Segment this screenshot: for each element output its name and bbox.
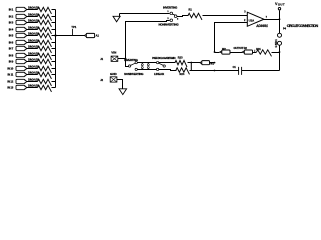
connector link P1 (jack pair) bbox=[278, 33, 282, 37]
resistor R7 bbox=[38, 46, 52, 53]
svg-text:LINEAR: LINEAR bbox=[154, 72, 164, 76]
wire feedback row segment bbox=[231, 52, 243, 54]
node mid rows merge bbox=[190, 63, 192, 70]
wire row 6 to bus bbox=[52, 42, 56, 44]
wire ground to switch S1 top contact bbox=[120, 13, 170, 15]
wire row 2 to bus bbox=[52, 16, 56, 18]
switch S2 bbox=[128, 65, 130, 67]
resistor R2 bbox=[38, 14, 52, 21]
svg-text:TP1: TP1 bbox=[71, 25, 77, 29]
wire VIN to junction bbox=[118, 58, 126, 60]
wire row 4 to bus bbox=[52, 29, 56, 31]
switch S3 bbox=[156, 61, 158, 63]
svg-text:IN 7: IN 7 bbox=[9, 47, 14, 51]
svg-text:IN 13: IN 13 bbox=[7, 86, 13, 90]
svg-text:GND: GND bbox=[110, 72, 118, 76]
svg-text:IN 3: IN 3 bbox=[9, 21, 14, 25]
node merge junction bbox=[190, 62, 192, 64]
wire row 5 to bus bbox=[52, 35, 56, 37]
svg-text:U1A: U1A bbox=[249, 18, 255, 22]
wire input row 11 bbox=[27, 74, 38, 76]
resistor R5 bbox=[38, 33, 52, 40]
wire input row 12 bbox=[27, 81, 38, 83]
node tick R31 bbox=[254, 50, 256, 52]
svg-text:IN 10: IN 10 bbox=[7, 67, 13, 71]
ground GND top bbox=[119, 14, 121, 17]
wire input row 10 bbox=[27, 68, 38, 70]
resistor R4 bbox=[38, 27, 52, 34]
svg-text:R1: R1 bbox=[189, 7, 193, 11]
wire output to VOUT terminal bbox=[279, 11, 281, 20]
resistor R1 bbox=[38, 7, 52, 14]
wire R31 to VOUT line bbox=[272, 52, 280, 54]
resistor R10 bbox=[38, 66, 52, 73]
resistor R12 bbox=[38, 79, 52, 86]
node TP1 tick bbox=[72, 29, 74, 36]
svg-text:R23: R23 bbox=[178, 55, 183, 59]
node VIN junction bbox=[125, 58, 127, 60]
terminal flag W1 bbox=[200, 61, 203, 64]
terminal flag A1 bbox=[84, 34, 87, 37]
wire riser to feedback row bbox=[215, 52, 220, 54]
node feedback-vout junction bbox=[279, 51, 281, 53]
terminal flag W2 bbox=[220, 51, 223, 54]
wire row 11 to bus bbox=[52, 74, 56, 76]
svg-text:GND1: GND1 bbox=[274, 39, 278, 48]
wire GND to ground symbol bbox=[117, 80, 123, 89]
terminal VOUT bbox=[278, 8, 280, 10]
resistor R6 bbox=[38, 40, 52, 47]
resistor R13 bbox=[38, 85, 52, 92]
wire C1 to VOUT line bbox=[242, 70, 280, 72]
resistor R1 bbox=[188, 13, 202, 20]
wire input row 8 bbox=[27, 55, 38, 57]
wire input row 9 bbox=[27, 61, 38, 63]
svg-text:NONINVERTING: NONINVERTING bbox=[159, 23, 179, 27]
wire input row 6 bbox=[27, 42, 38, 44]
wire summing bus bbox=[55, 10, 57, 88]
resistor R3 bbox=[38, 20, 52, 27]
wire row 13 to bus bbox=[52, 87, 56, 89]
node output junction bbox=[279, 18, 281, 20]
wire R24 to riser bottom bbox=[190, 70, 215, 72]
wire input row 3 bbox=[27, 22, 38, 24]
wire bus tap to flag A1 bbox=[56, 35, 85, 37]
wire row 10 to bus bbox=[52, 68, 56, 70]
wire output down to link bbox=[279, 20, 281, 34]
svg-text:PSEUDOLOGARITHMIC: PSEUDOLOGARITHMIC bbox=[152, 57, 176, 60]
wire row 7 to bus bbox=[52, 48, 56, 50]
wire inter-switch top bbox=[138, 62, 157, 64]
op-amp U1 bbox=[247, 12, 264, 26]
connector link P2 bbox=[141, 64, 143, 66]
terminal GND box bbox=[110, 77, 117, 82]
wire input row 2 bbox=[27, 16, 38, 18]
svg-text:NONINVERTING: NONINVERTING bbox=[124, 72, 143, 76]
resistor R8 bbox=[38, 53, 52, 60]
svg-text:IN 12: IN 12 bbox=[7, 80, 13, 84]
svg-text:IN 6: IN 6 bbox=[9, 41, 14, 45]
node riser-feedback junction bbox=[214, 51, 216, 53]
svg-text:VOUT: VOUT bbox=[275, 2, 285, 6]
wire input row 7 bbox=[27, 48, 38, 50]
capacitor C1 bbox=[239, 67, 242, 75]
wire flag to R31 bbox=[253, 52, 257, 54]
terminal flag OUTPUT bbox=[242, 51, 245, 54]
switch S1 bbox=[170, 12, 173, 15]
wire row 9 to bus bbox=[52, 61, 56, 63]
terminal VIN box bbox=[111, 56, 118, 61]
wire S3 top to R23 bbox=[159, 62, 176, 64]
wire row 1 to bus bbox=[52, 9, 56, 11]
svg-text:CIRCUIT CONNECTION: CIRCUIT CONNECTION bbox=[287, 24, 319, 28]
resistor R31 bbox=[257, 50, 272, 57]
svg-text:IN 2: IN 2 bbox=[9, 15, 14, 19]
svg-text:R24: R24 bbox=[180, 72, 185, 76]
resistor R11 bbox=[38, 72, 52, 79]
wire VIN riser to switch S1 bottom contact bbox=[126, 21, 170, 59]
resistor R23 bbox=[175, 60, 187, 67]
wire op-amp output bbox=[264, 19, 280, 21]
svg-text:IN 9: IN 9 bbox=[9, 60, 14, 64]
wire switch S1 common to R1 bbox=[177, 16, 189, 17]
svg-text:VIN: VIN bbox=[111, 51, 116, 55]
svg-text:AD8691: AD8691 bbox=[255, 24, 268, 28]
wire input row 13 bbox=[27, 87, 38, 89]
wire R23 to riser bbox=[188, 62, 215, 64]
wire row 12 to bus bbox=[52, 81, 56, 83]
resistor R24 bbox=[176, 68, 189, 75]
svg-text:IN 5: IN 5 bbox=[9, 34, 14, 38]
wire riser bottom to C1 bbox=[215, 70, 239, 72]
svg-text:IN 8: IN 8 bbox=[9, 54, 14, 58]
svg-text:A1: A1 bbox=[96, 34, 100, 38]
connector link P3 bbox=[147, 64, 149, 66]
wire link down to feedback bottom rail bbox=[279, 46, 281, 71]
wire riser to op-amp -in bbox=[215, 23, 248, 53]
node summing junction bbox=[54, 34, 56, 36]
wire input row 5 bbox=[27, 35, 38, 37]
svg-text:IN 4: IN 4 bbox=[9, 28, 14, 32]
wire inter-switch bottom bbox=[138, 69, 157, 71]
svg-text:IN 1: IN 1 bbox=[9, 8, 14, 12]
svg-text:IN 11: IN 11 bbox=[8, 73, 14, 77]
resistor R9 bbox=[38, 59, 52, 66]
node riser junction mid bbox=[214, 62, 216, 64]
wire row 8 to bus bbox=[52, 55, 56, 57]
wire input row 1 bbox=[27, 9, 38, 11]
wire S3 bottom to R24 bbox=[159, 70, 177, 71]
wire row 3 to bus bbox=[52, 22, 56, 24]
node riser bottom junction bbox=[214, 70, 216, 72]
svg-text:INVERTING: INVERTING bbox=[163, 5, 177, 9]
wire R1 to op-amp +in bbox=[203, 15, 248, 17]
wire junction to switch S2 common bbox=[126, 59, 129, 67]
wire input row 4 bbox=[27, 29, 38, 31]
ground GND bottom bbox=[119, 89, 127, 95]
